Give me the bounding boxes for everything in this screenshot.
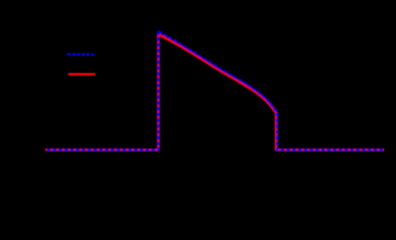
blue dashed curve: baseline + rise segment [46, 31, 158, 150]
blue dashed curve: decay segment [159, 31, 278, 112]
blue dashed curve: drop + right baseline segment [277, 113, 384, 150]
legend red solid sample [68, 73, 95, 75]
legend blue dashed sample [67, 53, 94, 55]
red solid curve (simulation trace) [45, 34, 384, 149]
